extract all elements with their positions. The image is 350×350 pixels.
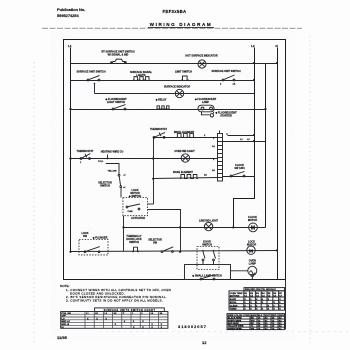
wire table right edge (285, 280, 287, 330)
lamp surface indicator (row3) (164, 86, 190, 98)
svg-text:M: M (251, 226, 255, 232)
svg-text:LAMP: LAMP (249, 263, 256, 266)
wire drop row2 to row3 (94, 83, 96, 94)
svg-text:◆ RELAY: ◆ RELAY (155, 99, 167, 102)
junction row8/drop (179, 251, 181, 253)
svg-text:3. CONTINUITY SETS IN DO NOT A: 3. CONTINUITY SETS IN DO NOT APPLY ON AL… (66, 298, 163, 302)
wire feeder vertical oven (153, 138, 155, 205)
svg-text:SURFACE UNIT SWITCH: SURFACE UNIT SWITCH (76, 71, 105, 74)
svg-text:Publication No.: Publication No. (57, 7, 85, 12)
svg-text:L2: L2 (251, 44, 255, 48)
wire row8 (71, 251, 278, 252)
scan artifact dotted line bottom (100, 331, 348, 333)
svg-text:STARTER: STARTER (220, 115, 232, 118)
svg-text:1A: 1A (150, 312, 153, 315)
svg-text:BK: BK (251, 318, 255, 320)
svg-text:MOTOR: MOTOR (248, 219, 257, 222)
svg-text:HEATING WIRE CU: HEATING WIRE CU (101, 151, 124, 154)
svg-text:BAKE ELEMENT: BAKE ELEMENT (173, 171, 193, 174)
switch thermal door lock (row8) (126, 235, 142, 252)
junction row4/inner neutral (264, 108, 266, 110)
motor clock (row7) (248, 216, 258, 232)
svg-text:LAMP: LAMP (202, 101, 209, 104)
svg-text:T.O.D.: T.O.D. (98, 161, 104, 163)
svg-text:POS. SW: POS. SW (62, 313, 72, 315)
svg-text:LIGHT SWITCH: LIGHT SWITCH (107, 101, 125, 104)
svg-text:GRN: GRN (279, 315, 284, 317)
diagram border box (64, 40, 286, 280)
switch clock (223, 164, 255, 177)
svg-text:1A: 1A (233, 83, 236, 86)
svg-text:318002057: 318002057 (178, 324, 207, 329)
switch surface unit left (row2) (76, 71, 105, 81)
svg-text:M: M (249, 248, 253, 254)
svg-text:L1: L1 (68, 44, 72, 48)
svg-text:2A: 2A (204, 174, 207, 177)
switch surface unit right (row2) (211, 70, 240, 86)
junction row6/L1 (69, 157, 71, 159)
svg-text:SURFACE UNIT SWITCH: SURFACE UNIT SWITCH (211, 70, 240, 73)
svg-text:SWITCH: SWITCH (202, 244, 212, 247)
svg-text:BAKE: BAKE (230, 298, 237, 301)
svg-text:BLACK WIRE: BLACK WIRE (228, 317, 243, 320)
element broil (row5) (174, 131, 206, 137)
svg-text:TIMED: TIMED (230, 309, 237, 311)
svg-text:BLK: BLK (258, 315, 263, 317)
svg-text:+2: +2 (123, 175, 125, 177)
junction row7 taps (122, 226, 124, 228)
wire row2 (71, 80, 255, 82)
svg-text:SETTING: SETTING (230, 295, 240, 297)
svg-text:RED WIRE: RED WIRE (228, 323, 239, 325)
wire strip to inner neutral (223, 139, 266, 142)
oven lamp box (185, 265, 231, 280)
svg-text:RED: RED (272, 315, 277, 317)
junction row8/L1 (69, 251, 71, 253)
wire tap heating wire (row6) (101, 151, 124, 160)
junction row4/L1 (69, 108, 71, 110)
lock motor switch dashed box (123, 189, 148, 220)
wire row4 (71, 109, 266, 111)
svg-text:YELLOW: YELLOW (108, 171, 117, 173)
lamp hot surface indicator (row1) (185, 55, 217, 69)
wire row bake (154, 178, 218, 179)
svg-text:2A: 2A (160, 312, 163, 315)
switch rt surface unit (row1) (101, 51, 134, 64)
junction bake/feeder (152, 178, 154, 180)
svg-text:AWG: AWG (251, 314, 257, 317)
svg-text:WHITE WIRE: WHITE WIRE (228, 320, 242, 322)
svg-text:HOT SURFACE INDICATOR: HOT SURFACE INDICATOR (185, 55, 217, 58)
svg-text:WIRE COLOR CODE: WIRE COLOR CODE (228, 315, 250, 317)
svg-text:CLEAN: CLEAN (230, 304, 238, 307)
header rule (42, 27, 302, 30)
svg-text:SWITCH: SWITCH (100, 184, 110, 187)
fluorescent lamp (row4) (194, 98, 237, 118)
table wiring code upper-right (229, 288, 285, 311)
wire L1 bus (70, 48, 72, 253)
svg-text:WIRING DIAGRAM: WIRING DIAGRAM (150, 22, 213, 27)
wire row5 thermostat-broil (154, 137, 218, 139)
header model number (163, 9, 187, 14)
svg-text:1A: 1A (212, 145, 215, 148)
svg-text:MED LO: MED LO (62, 321, 71, 323)
svg-text:11/95: 11/95 (57, 335, 68, 340)
svg-text:LIMIT SWITCH: LIMIT SWITCH (175, 71, 192, 74)
svg-text:SW: SW (153, 242, 158, 245)
svg-text:SWITCH: SWITCH (129, 241, 139, 244)
junction row6/feeder (152, 157, 154, 159)
lamp oven indicator (row6) (174, 150, 195, 162)
junction row8/N (276, 249, 278, 251)
switch fluorescent light (row4) (104, 98, 127, 110)
svg-text:WH: WH (251, 320, 255, 322)
junction row1/N (276, 62, 278, 64)
footer date (57, 335, 68, 340)
wire row7 clock (124, 227, 266, 229)
wire row1 (71, 63, 278, 65)
table wire color code lower-right (227, 314, 285, 331)
svg-text:CAM: CAM (128, 210, 133, 213)
svg-text:YELLOW WIRE: YELLOW WIRE (228, 326, 244, 328)
svg-text:GREEN WIRE: GREEN WIRE (228, 328, 243, 330)
switch thermostat lower (row6) (77, 150, 94, 164)
switch limit (row2) (175, 71, 192, 81)
svg-text:BROIL: BROIL (230, 302, 237, 304)
footer page number (202, 340, 207, 345)
part number (178, 324, 207, 329)
notes text (60, 284, 171, 302)
scan artifact dotted line left (33, 62, 35, 345)
svg-text:OFF: OFF (62, 316, 67, 318)
scan artifact dotted line right (309, 36, 311, 345)
header title WIRING DIAGRAM (150, 22, 213, 27)
svg-text:LO: LO (62, 318, 65, 320)
switch thermostat upper (row5) (150, 128, 167, 138)
motor lock (row8) (247, 241, 257, 255)
svg-text:SW: SW (83, 235, 88, 238)
element bake (173, 171, 207, 178)
wire lock box bottom drop (123, 216, 125, 252)
lamp line indicator (row7) (199, 220, 218, 231)
svg-text:FEF3x5BA: FEF3x5BA (163, 9, 187, 14)
node L2 label (251, 44, 255, 48)
svg-text:x1: x1 (123, 187, 125, 189)
svg-text:WHT: WHT (265, 315, 271, 317)
svg-text:MED HI: MED HI (62, 324, 70, 326)
svg-text:OVEN IND LIGHT: OVEN IND LIGHT (174, 150, 195, 153)
relay coil (row4) (155, 99, 169, 110)
wire yellow drop + selector blade (98, 161, 125, 198)
svg-text:5995274254: 5995274254 (57, 13, 79, 18)
connector strip oven plug (212, 134, 223, 182)
door switch dashed box (197, 241, 219, 270)
svg-text:GN: GN (251, 328, 255, 330)
wire row3 (95, 93, 255, 95)
svg-text:THERMOSTAT: THERMOSTAT (150, 128, 167, 131)
node L1 label (68, 44, 72, 48)
switch lock plunger dashed box (row8) (79, 232, 108, 255)
node N label (276, 44, 279, 48)
wire lock box to row8 drop (148, 210, 181, 252)
wire N bus (277, 48, 279, 280)
svg-text:RD: RD (251, 323, 255, 325)
wire L2 bus (234, 48, 255, 228)
wire strip to L2 upper (220, 131, 256, 137)
svg-text:ACTUATOR: ACTUATOR (131, 217, 145, 220)
svg-text:◆ PLUNGER: ◆ PLUNGER (92, 237, 108, 240)
table switch chart bottom-left (61, 308, 168, 329)
junction row2/L2 (253, 79, 255, 81)
svg-text:12: 12 (202, 340, 207, 345)
switch selector (row8) (148, 239, 173, 253)
wire feeder into lock box (148, 203, 154, 205)
svg-text:THERMOSTAT: THERMOSTAT (77, 150, 94, 153)
wire row6 oven (71, 158, 218, 160)
svg-text:SURFACE INDICATOR: SURFACE INDICATOR (164, 86, 190, 89)
header publication text (57, 7, 85, 18)
svg-text:2A: 2A (212, 169, 215, 172)
svg-text:SW 1304: SW 1304 (234, 167, 245, 170)
lamp oven (231, 260, 257, 280)
svg-text:W/ SIGNAL & IND: W/ SIGNAL & IND (108, 54, 129, 57)
junction row1/L2 (253, 62, 255, 64)
wire inner neutral (266, 64, 278, 228)
element surface signal lights (row2) (130, 71, 153, 80)
